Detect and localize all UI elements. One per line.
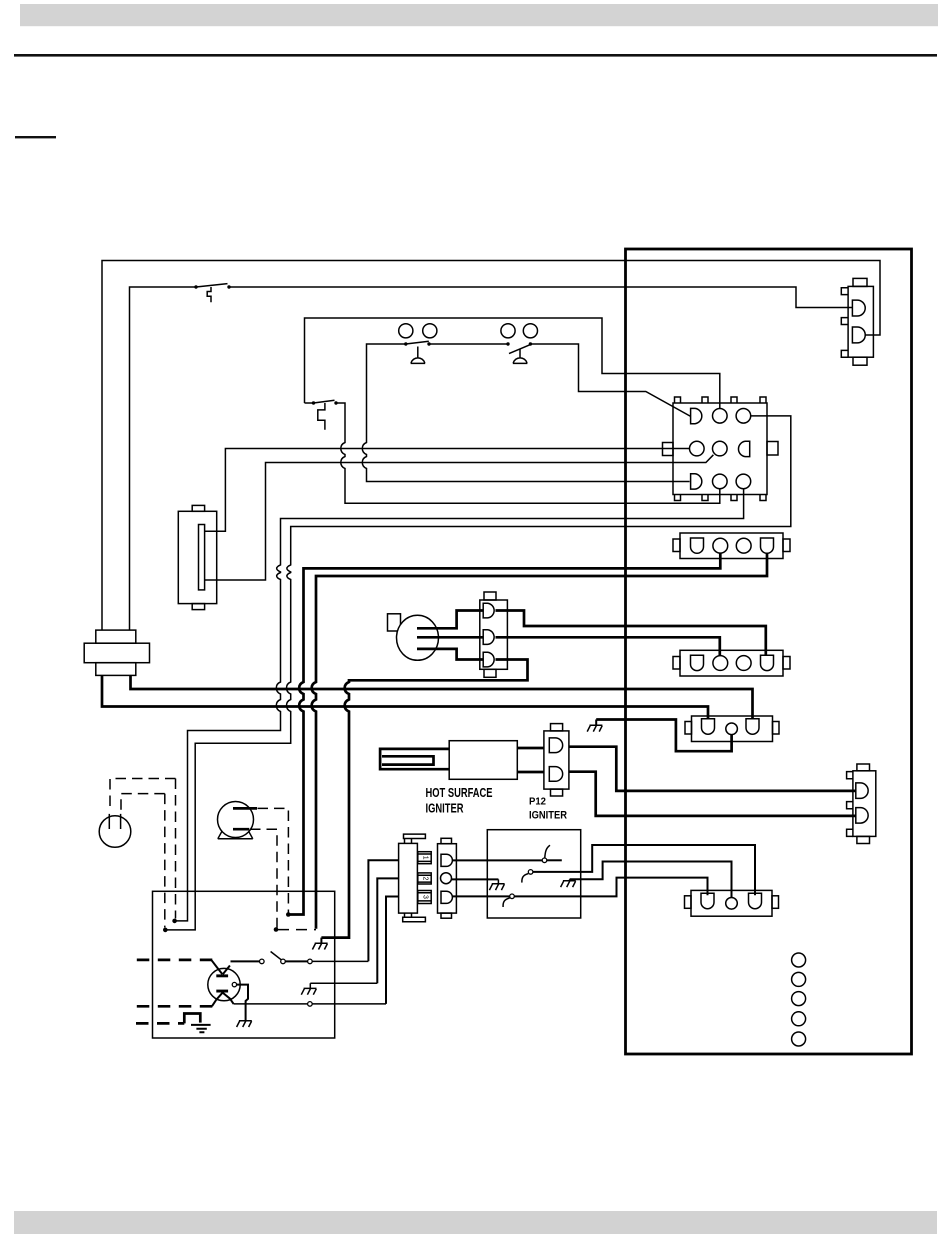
connector P4 pin3 [483,652,494,667]
relay contact 1 blade [545,845,550,858]
connector P11 bottom tab [857,836,870,843]
pressure switch PS1 blade [406,341,429,344]
connector P12 body [544,731,569,789]
field wiring dashed: vertical to node 2 [164,794,166,928]
connector P3A pin1 [691,538,704,553]
limit switch LS1 contact dots [194,285,197,288]
connector P6 pin3 [749,893,762,909]
chassis ground G6 [489,879,504,890]
connector P2 pin 2-2 [713,441,728,456]
wire: P3A pin2 feed (thick, hops) [289,553,721,914]
wire: pressure switch run to 3x3 connector pin 1-1 (with corner hops) [362,344,690,482]
chassis ground G4 [237,1016,252,1028]
connector P6 pin1 [701,893,714,909]
connector P2 pin 3-2 [713,474,728,489]
connector P12 bottom tab [551,789,563,796]
wire: ground run to igniter plug pin2 lead [310,982,377,984]
connector PL2 body [848,286,873,357]
igniter plug P9 bottom T-handle [403,913,426,922]
wire: IGV lead 1 to connector P4 pin1 (thick) [417,611,483,629]
motor protector node terminal [232,982,236,986]
dashed wire: node 4 to P3A pin4 drop [278,929,316,931]
wire: P10 pin2 to chassis ground G6 [452,878,499,880]
connector P3B left tab [673,657,680,670]
connector P3A pin2 [713,538,728,553]
wire: hot line from plug stack to 3-pin connector P5 pin3 (thick) [131,675,753,719]
connector P3A left tab [673,539,680,552]
limit switch LS2 contact dots [312,401,315,404]
wire: protector node to chassis ground G4 (thick) [237,985,248,1016]
connector P3A pin3 [736,538,751,553]
pressure switch PS2 diaphragm [513,350,528,364]
plug stack PL1 upper shell [96,630,136,643]
field wiring dashed: inner run to thermostat [121,794,165,811]
thermostat circle TH [99,816,131,848]
igniter plug P9 top T-handle [404,834,426,843]
connector P11 pin1 [856,783,868,799]
wire: P12 pin1 to connector P11 pin1 (thick) [569,747,856,791]
connector P10 pin3 [441,891,452,903]
door switch DS terminal 1 [260,959,265,964]
chassis ground G7 [561,879,576,887]
junction dot: field wiring node 2 [163,928,168,933]
wire: P10 pin1 to relay contact 1 [452,859,542,861]
wire: relay contact 2 to connector P6 pin3 [533,845,755,895]
relay contact 1 stub [547,859,562,861]
connector PL2 bottom tab [853,357,867,365]
pressure switch PS2 blade [509,345,530,354]
connector P2 pin 3-3 [736,474,751,489]
connector P10 body [438,844,457,913]
limit switch LS1 reset stem [207,287,211,302]
pressure switch PS1 diaphragm [411,347,426,364]
fuse F1 inner element [199,525,205,590]
connector P10 top tab [441,838,452,843]
dashed line-voltage wire L1 to protector (thick) [137,959,213,962]
connector P3B right tab [783,657,790,670]
dashed line-voltage ground wire (thick) [136,1022,184,1025]
hot surface igniter HSI element fork outer [380,749,449,769]
dashed line-voltage wire L2 to protector (thick) [137,1005,213,1008]
connector P2 pin 1-1 [691,408,702,423]
dashed wire: motor terminal 1 to dot node 3 [258,808,289,913]
svg-text:1: 1 [421,856,428,860]
svg-text:P12: P12 [529,796,546,808]
igniter plug P9 pin stub 1 [418,852,431,864]
connector P5 left tab [685,722,692,735]
connector P3B pin2 [713,656,728,671]
connector P5 body [692,716,773,742]
relay contact 2 pivot [528,870,533,875]
wire: IGV lead 2 to connector P4 pin2 (thick) [417,636,483,639]
connector P2 right tab [767,442,778,456]
chassis ground G3 [301,983,316,995]
wire: P9 pin2 lead down to chassis ground wire (thick) [377,878,398,983]
wire B: 3x3 pin 1-3 to field node dot (with hops) [166,416,791,930]
connector PL2 pin2 [852,327,865,343]
chassis ground G5 [587,720,602,732]
connector P6 left tab [685,896,692,909]
inducer motor terminal 2 [233,828,249,831]
pressure switch PS1 contact dots [404,342,407,345]
connector P2 pin 3-1 [691,474,702,489]
limit switch LS1 blade [196,284,228,287]
connector P2 left tab [663,443,674,456]
wire: P4 pin3 to chassis ground G8 (thick, with hops) [321,660,527,938]
limit switch LS2 reset stem [318,403,325,430]
connector P11 left tabs [847,772,853,837]
wire A: 3x3 pin 3-3 to field node dot (with hops) [176,489,744,921]
connector P10 pin1 [441,854,452,866]
junction dot: field wiring node 1 [172,919,177,924]
svg-text:3: 3 [421,895,428,899]
connector P4 top tab [484,592,496,600]
wire: HSI lead to P12 pin1 (thick) [517,747,544,750]
wire: P5 pin2 to chassis ground G5 (thick) [596,720,731,752]
inducer motor IDM body [218,802,254,838]
connector P3A right tab [783,539,790,552]
wire: P10 pin3 to relay contact 3 [452,895,509,897]
relay contact 3 hook blade [503,898,510,907]
hot surface igniter HSI body [449,741,517,780]
connector P4 pin1 [483,603,494,618]
thermostat leads [109,814,120,829]
junction dot: motor node 4 [274,927,279,932]
igniter plug P9 body [399,843,418,913]
motor protector MP circle [208,968,240,1000]
fuse F1 body [178,511,216,603]
pressure switch PS2 terminals [501,324,515,338]
wire: IGV lead 3 to connector P4 pin3 (thick) [417,649,483,660]
connector P12 pin1 [549,738,562,753]
wire: neutral line from plug stack to 3-pin connector P5 pin1 (thick) [102,675,708,719]
motor protector contact bar top [216,974,228,977]
door switch DS blade [271,952,283,961]
wire: P3A pin4 feed (thick, hops) [312,553,767,929]
connector P3B pin4 [761,655,774,670]
earth ground lead step (thick) [184,1014,200,1024]
connector PL2 top tab [853,278,867,286]
wire: door switch link (thick) [285,960,307,962]
wire: line L2 from left down-corner through limit switch to connector PL2 pin1 [130,287,853,630]
junction box outline [153,891,335,1038]
motor protector top V arms [212,960,230,974]
sub-circuit frame: pressure switch branch top [305,318,720,409]
field wiring dashed: outer run to thermostat [110,779,176,813]
connector P4 pin2 [483,630,494,645]
control board outline [626,249,912,1054]
wire: fuse F1 top lead to 3x3 pin 2-1 [205,449,690,532]
motor protector bottom V arms [212,993,234,1007]
relay contact 1 pivot [542,858,547,863]
wire: limit switch LS2 run down to 3x3 pin 3-2 (with hops) [305,403,720,503]
wire: HSI lead to P12 pin2 (thick) [517,771,544,774]
svg-text:2: 2 [421,876,428,880]
wire: P9 pin3 lead down to limit protector wire [386,897,399,1004]
connector P5 pin3 [746,719,759,735]
earth ground GE [191,1025,211,1032]
connector P5 right tab [773,722,780,735]
svg-text:IGNITER: IGNITER [529,810,567,822]
pressure switch PS2 contact dots [506,342,509,345]
wire: P12 pin2 to connector P11 pin2 (thick) [569,772,856,816]
door switch DS terminal 2 [281,959,286,964]
limit switch LS2 blade [314,400,335,403]
inducer gas valve IGV tab [388,614,401,631]
connector P6 right tab [772,896,779,909]
inducer motor IDM base [218,825,253,839]
board test pads: column of 5 circles [792,953,806,967]
connector P11 body [853,771,876,837]
connector P10 bottom tab [441,913,452,918]
connector P2 pin 2-1 [690,441,705,456]
connector P6 pin2 [726,898,738,910]
hot surface igniter HSI element fork inner [382,756,434,764]
wire: protector arm to door switch (thick) [231,960,260,962]
svg-text:IGNITER: IGNITER [426,802,464,816]
connector P12 pin2 [549,767,562,782]
relay contact 2 hook blade [522,874,528,883]
connector PL2 left tabs [841,288,848,358]
protector circuit plug terminal [308,1002,313,1007]
connector P2 pin 1-2 [713,409,728,424]
connector P3B pin3 [736,656,751,671]
pressure switch PS1 terminals [399,324,413,338]
field wiring dashed: vertical to node 1 [175,779,177,919]
wire: protector arm run to igniter plug pin3 lead [234,1003,386,1005]
chassis ground G8 [312,938,327,950]
connector P4 body [480,600,508,669]
connector P5 pin1 [702,719,715,735]
fuse F1 bottom tab [192,604,204,610]
wire: chassis ground G7 to connector P6 pin2 [570,862,732,898]
inducer motor terminal 1 [233,807,257,810]
connector P2 pin 1-3 [736,409,751,424]
connector PL2 pin1 [852,300,865,316]
connector P11 pin2 [856,808,868,824]
fuse F1 top tab [192,505,204,511]
connector P10 pin2 [441,873,452,884]
igniter plug P9 pin stub 3 [418,891,431,904]
svg-text:HOT SURFACE: HOT SURFACE [426,786,493,800]
inducer gas valve IGV body [397,615,439,660]
wire: line L1 from connector PL2 pin2 around top to left side down to plug stack [102,261,880,631]
connector P12 top tab [551,724,563,731]
wire: door switch to igniter plug pin1 lead [312,960,368,962]
wire: P4 pin2 to connector P3B pin2 (thick) [496,637,720,656]
connector P4 bottom tab [484,669,496,677]
junction dot: motor node 3 [286,912,291,917]
connector P2 3x3 body [673,403,767,495]
connector P11 top tab [857,764,870,771]
dashed wire: motor terminal 2 to dot node 4 [250,829,277,928]
connector P6 body [691,890,772,916]
wire: P9 pin1 lead down to door switch (thick) [368,860,398,961]
connector P2 top tabs [675,397,767,403]
connector P3B pin1 [691,655,704,670]
wire: fuse F1 bottom lead to 3x3 pin 2-2 [205,455,714,580]
connector P3B body [680,650,783,676]
relay box K1 outline [487,830,580,918]
plug stack PL1 middle shell [84,643,149,663]
wire: P4 pin1 to connector P3B pin4 (thick) [496,611,766,656]
motor protector contact bar bottom [216,990,228,993]
plug stack PL1 lower shell [96,663,136,676]
connector P2 bottom tabs [675,495,767,501]
connector P5 pin2 [726,723,738,735]
connector P2 pin 2-3 [738,441,749,456]
relay contact 3 pivot [510,894,515,899]
igniter plug P9 pin stub 2 [418,873,431,884]
connector P3A body [680,533,783,559]
door switch plug terminal [308,959,313,964]
connector P3A pin4 [761,538,774,553]
wire: relay contact 3 to connector P6 pin1 [514,878,707,897]
